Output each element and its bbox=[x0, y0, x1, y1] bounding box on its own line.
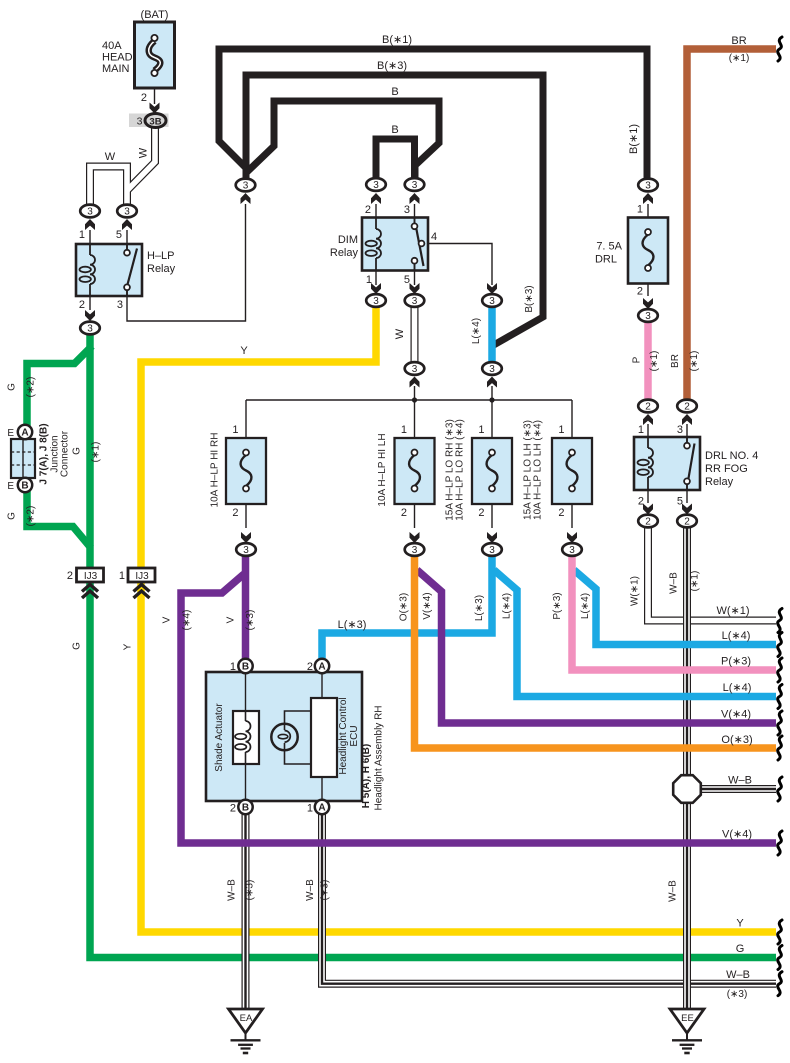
arrow down #7 bbox=[241, 532, 251, 543]
svg-text:W–B: W–B bbox=[227, 879, 238, 901]
svg-text:IJ3: IJ3 bbox=[135, 571, 149, 582]
connector IJ3 right chevrons bbox=[134, 585, 150, 599]
wire B(*3) thick battery feed bbox=[246, 75, 543, 346]
break squiggle #9 bbox=[778, 831, 782, 855]
wire DIM relay pin 1 lead bbox=[375, 271, 377, 285]
wire H-LP relay pin 1 lead bbox=[89, 230, 91, 244]
svg-text:B: B bbox=[391, 124, 398, 136]
fuse H-LP LO RH box bbox=[472, 438, 512, 504]
svg-text:Shade Actuator: Shade Actuator bbox=[214, 703, 225, 772]
svg-text:Relay: Relay bbox=[147, 263, 176, 275]
break squiggle #11 bbox=[778, 946, 782, 970]
relay DIM switch bbox=[414, 218, 416, 224]
svg-text:3: 3 bbox=[412, 364, 418, 375]
svg-text:W(∗1): W(∗1) bbox=[716, 605, 749, 617]
wire L(*4) branch fuse 4 to right edge bbox=[574, 570, 776, 645]
svg-text:2: 2 bbox=[79, 299, 85, 311]
connector oval 3 #7 bbox=[366, 294, 386, 307]
svg-text:L(∗4): L(∗4) bbox=[471, 318, 482, 344]
wire DIM relay pin 3 lead bbox=[414, 204, 416, 218]
connector IJ3 left chevrons bbox=[82, 585, 98, 599]
svg-text:1: 1 bbox=[230, 661, 236, 673]
relay DRL coil bbox=[647, 437, 649, 448]
wire W(*1) from DRL relay pin 2 bbox=[648, 527, 776, 621]
svg-text:(∗1): (∗1) bbox=[689, 351, 700, 372]
svg-text:(∗3): (∗3) bbox=[727, 989, 748, 1000]
node junction dot L column bbox=[489, 397, 494, 402]
octagon junction W-B bbox=[673, 775, 701, 803]
arrow down #11 bbox=[643, 504, 653, 515]
connector oval 3 #12 bbox=[638, 179, 658, 192]
wire DRL fuse pin 1 lead bbox=[647, 204, 649, 232]
svg-text:L(∗4): L(∗4) bbox=[502, 593, 513, 619]
svg-text:W(∗1): W(∗1) bbox=[630, 576, 641, 606]
svg-text:3: 3 bbox=[412, 180, 418, 191]
fuse H-LP LO LH box bbox=[552, 438, 592, 504]
svg-text:2: 2 bbox=[307, 661, 313, 673]
svg-text:4: 4 bbox=[431, 231, 437, 243]
svg-text:2: 2 bbox=[684, 517, 690, 528]
arrow up #1 bbox=[85, 219, 95, 230]
wire fuse 3 pin 2 lead bbox=[491, 489, 493, 528]
svg-text:ECU: ECU bbox=[349, 725, 360, 746]
headlight control ECU box bbox=[311, 698, 337, 777]
svg-text:3: 3 bbox=[645, 311, 651, 322]
headlight assembly RH box bbox=[206, 672, 362, 801]
svg-text:1: 1 bbox=[401, 424, 407, 436]
wire DIM relay pin 2 lead bbox=[375, 204, 377, 218]
svg-text:BR: BR bbox=[731, 35, 746, 47]
svg-text:W–B: W–B bbox=[669, 572, 680, 594]
svg-text:Relay: Relay bbox=[330, 247, 359, 259]
connector oval 3 #1 bbox=[80, 205, 100, 218]
break squiggle #4 bbox=[778, 658, 782, 682]
svg-text:3: 3 bbox=[243, 545, 249, 556]
svg-text:O(∗3): O(∗3) bbox=[721, 734, 752, 746]
svg-text:2: 2 bbox=[645, 402, 651, 413]
wire B thick battery feed bbox=[247, 101, 439, 181]
svg-text:Y: Y bbox=[123, 643, 134, 650]
svg-text:H–LP: H–LP bbox=[147, 250, 175, 262]
svg-text:3: 3 bbox=[489, 364, 495, 375]
svg-text:3: 3 bbox=[243, 181, 249, 192]
arrow up #3 bbox=[241, 193, 251, 204]
wire G(*2) branch from junction connector B bbox=[27, 491, 91, 548]
svg-text:Relay: Relay bbox=[705, 476, 734, 488]
wire BAT fusible link to 3B connector bbox=[154, 76, 156, 104]
svg-text:W: W bbox=[394, 328, 406, 339]
svg-text:W: W bbox=[138, 147, 150, 158]
svg-text:G: G bbox=[736, 943, 745, 955]
arrow down #4 bbox=[410, 283, 420, 294]
svg-text:3: 3 bbox=[124, 207, 130, 218]
svg-text:(∗1): (∗1) bbox=[649, 351, 660, 372]
wire W-B from DRL relay pin 5 to ground EE bbox=[683, 527, 691, 1009]
wire Y yellow bbox=[141, 306, 776, 932]
arrow up #4 bbox=[371, 193, 381, 204]
svg-text:B: B bbox=[242, 662, 249, 673]
svg-text:3: 3 bbox=[373, 180, 379, 191]
svg-text:1: 1 bbox=[307, 803, 313, 815]
connector 3B gray tag bbox=[129, 114, 169, 128]
wire DRL relay pin 2 lead bbox=[647, 490, 649, 503]
svg-text:G: G bbox=[72, 642, 83, 650]
svg-text:Headlight Control: Headlight Control bbox=[338, 697, 349, 774]
connector oval 2 #1 bbox=[638, 400, 658, 413]
fuse 10A H-LP HI RH box bbox=[226, 438, 266, 504]
svg-text:2: 2 bbox=[638, 496, 644, 508]
wire fuse 1 pin 2 lead bbox=[245, 489, 247, 528]
svg-text:P: P bbox=[632, 356, 643, 363]
svg-text:3: 3 bbox=[117, 299, 123, 311]
svg-text:V: V bbox=[226, 616, 237, 623]
arrow down #8 bbox=[410, 532, 420, 543]
wire DRL relay pin 1 lead bbox=[647, 424, 649, 437]
wire W-B octagon to right edge bbox=[700, 785, 776, 793]
svg-text:HEAD: HEAD bbox=[102, 52, 133, 64]
svg-text:W–B: W–B bbox=[728, 775, 752, 787]
svg-text:3: 3 bbox=[412, 545, 418, 556]
arrow up #6 bbox=[410, 377, 420, 388]
svg-text:G: G bbox=[7, 512, 18, 520]
svg-text:A: A bbox=[318, 662, 325, 673]
svg-text:B: B bbox=[242, 803, 249, 814]
connector oval 2 #4 bbox=[677, 515, 697, 528]
break squiggle #12 bbox=[778, 972, 782, 996]
connector oval 3 #10 bbox=[405, 362, 425, 375]
connector oval 3 #13 bbox=[638, 309, 658, 322]
relay DIM coil bbox=[375, 218, 377, 230]
relay DIM box bbox=[362, 218, 428, 271]
wire fuse 2 pin 2 lead bbox=[414, 489, 416, 528]
wire headlight pin B internal bbox=[245, 673, 247, 800]
svg-text:Y: Y bbox=[736, 918, 744, 930]
svg-text:B(∗3): B(∗3) bbox=[377, 60, 407, 72]
svg-text:5: 5 bbox=[116, 229, 122, 241]
connector 3B oval bbox=[145, 114, 166, 128]
svg-text:J 7(A), J 8(B): J 7(A), J 8(B) bbox=[39, 423, 50, 484]
svg-text:10A H–LP LO RH (∗4): 10A H–LP LO RH (∗4) bbox=[455, 419, 466, 521]
svg-text:W–B: W–B bbox=[668, 880, 679, 902]
svg-text:L(∗4): L(∗4) bbox=[722, 630, 751, 642]
svg-text:5: 5 bbox=[677, 496, 683, 508]
wire L column to bus bbox=[491, 386, 493, 400]
connector oval 2 #3 bbox=[638, 515, 658, 528]
wire W column to bus bbox=[414, 386, 416, 400]
wire V(*4) branch fuse 2 to right edge bbox=[417, 570, 776, 723]
headlight pin B bottom bbox=[238, 800, 252, 814]
svg-text:10A H–LP LO LH (∗4): 10A H–LP LO LH (∗4) bbox=[533, 420, 544, 520]
svg-text:B: B bbox=[21, 481, 28, 492]
break squiggle #5 bbox=[778, 685, 782, 709]
svg-text:DIM: DIM bbox=[338, 234, 358, 246]
connector IJ3 left box bbox=[77, 568, 104, 582]
wire fuse 4 pin 2 lead bbox=[571, 489, 573, 528]
wire fuse bus bbox=[246, 399, 572, 401]
wire W DIM relay pin5 to fuse column bbox=[411, 306, 419, 363]
wire H-LP relay pin 2 lead bbox=[89, 296, 91, 310]
wire W-B(*3) from headlight pin B to ground EA bbox=[242, 813, 250, 1009]
svg-text:A: A bbox=[21, 428, 28, 439]
svg-text:B(∗1): B(∗1) bbox=[382, 34, 412, 46]
arrow down #9 bbox=[487, 532, 497, 543]
svg-text:RR FOG: RR FOG bbox=[705, 463, 748, 475]
svg-text:3B: 3B bbox=[149, 116, 161, 127]
break squiggle #10 bbox=[778, 920, 782, 944]
junction connector J7/J8 box bbox=[11, 439, 35, 478]
bulb bbox=[271, 724, 297, 750]
relay H-LP coil bbox=[89, 244, 91, 255]
svg-text:3: 3 bbox=[87, 324, 93, 335]
connector oval 3 #9 bbox=[482, 294, 502, 307]
svg-text:V: V bbox=[162, 616, 173, 623]
svg-text:(∗1): (∗1) bbox=[91, 442, 102, 463]
svg-text:(∗3): (∗3) bbox=[245, 610, 256, 631]
svg-text:Headlight Assembly RH: Headlight Assembly RH bbox=[374, 705, 385, 810]
wire bus to fuse 3 bbox=[491, 400, 493, 452]
svg-text:DRL: DRL bbox=[595, 254, 617, 266]
svg-text:2: 2 bbox=[478, 507, 484, 519]
svg-text:V(∗4): V(∗4) bbox=[721, 709, 751, 721]
svg-text:G: G bbox=[7, 383, 18, 391]
relay DRL NO.4 RR FOG box bbox=[634, 437, 700, 490]
svg-text:B(∗3): B(∗3) bbox=[524, 285, 535, 312]
svg-text:(∗1): (∗1) bbox=[729, 53, 750, 64]
svg-text:3: 3 bbox=[412, 296, 418, 307]
arrow up #2 bbox=[122, 219, 132, 230]
connector oval 3 #15 bbox=[405, 543, 425, 556]
relay H-LP switch bbox=[126, 244, 128, 250]
svg-text:DRL NO. 4: DRL NO. 4 bbox=[705, 450, 758, 462]
bulb leads bbox=[285, 711, 312, 764]
svg-text:E: E bbox=[7, 481, 14, 492]
svg-text:2: 2 bbox=[401, 507, 407, 519]
svg-text:Connector: Connector bbox=[60, 430, 71, 477]
wire H-LP relay pin 3 to splice node bbox=[127, 204, 246, 321]
svg-text:H 5(A), H 6(B): H 5(A), H 6(B) bbox=[361, 744, 372, 808]
svg-text:40A: 40A bbox=[102, 40, 122, 52]
wire B bridge DIM relay pins 2-3 bbox=[376, 139, 415, 181]
arrow down #2 bbox=[85, 310, 95, 321]
break squiggle #1 bbox=[778, 37, 782, 61]
wire V(*3) fuse 1 to headlight pin B bbox=[242, 556, 250, 660]
svg-text:3: 3 bbox=[677, 424, 683, 436]
svg-text:(∗4): (∗4) bbox=[182, 610, 193, 631]
svg-text:A: A bbox=[318, 803, 325, 814]
break squiggle #6 bbox=[778, 711, 782, 735]
svg-text:7. 5A: 7. 5A bbox=[596, 241, 622, 253]
svg-text:3: 3 bbox=[87, 207, 93, 218]
svg-text:L(∗4): L(∗4) bbox=[723, 682, 752, 694]
svg-text:2: 2 bbox=[684, 402, 690, 413]
headlight pin B top bbox=[238, 659, 252, 673]
svg-text:(∗3): (∗3) bbox=[320, 880, 331, 901]
break squiggle #2 bbox=[778, 609, 782, 633]
svg-text:B: B bbox=[391, 86, 398, 98]
wire bus to fuse 2 bbox=[414, 400, 416, 452]
wire DIM relay pin 4 to connector bbox=[425, 244, 493, 286]
svg-text:P(∗3): P(∗3) bbox=[721, 656, 751, 668]
wire L(*4) branch fuse 3 to right edge bbox=[494, 570, 776, 697]
svg-text:O(∗3): O(∗3) bbox=[399, 593, 410, 621]
connector IJ3 right box bbox=[128, 568, 155, 582]
svg-text:5: 5 bbox=[404, 274, 410, 286]
connector oval 3 #6 bbox=[405, 178, 425, 191]
fusible link 40A HEAD MAIN (BAT) box bbox=[135, 22, 175, 88]
break squiggle #8 bbox=[778, 777, 782, 801]
ground EA bbox=[229, 1009, 263, 1033]
junction connector pin A bbox=[18, 425, 32, 439]
svg-text:2: 2 bbox=[67, 570, 73, 582]
node junction dot W column bbox=[412, 397, 417, 402]
relay DRL switch bbox=[686, 437, 688, 443]
wire W from 3B connector bbox=[90, 167, 127, 207]
wire bus to fuse 4 bbox=[571, 400, 573, 452]
wire G green main bbox=[90, 334, 776, 958]
junction connector pin B bbox=[18, 478, 32, 492]
svg-text:W–B: W–B bbox=[305, 879, 316, 901]
connector oval 2 #2 bbox=[677, 400, 697, 413]
wire O(*3) fuse 2 to right edge bbox=[415, 556, 777, 748]
wire H-LP relay pin 5 lead bbox=[126, 230, 128, 244]
arrow down #12 bbox=[682, 504, 692, 515]
wire BR brown feed bbox=[687, 49, 776, 400]
relay H-LP box bbox=[76, 244, 142, 296]
wire W-B(*3) from headlight pin A to right edge bbox=[322, 813, 776, 984]
wire P(*3) fuse 4 to right edge bbox=[572, 556, 776, 670]
svg-text:3: 3 bbox=[489, 296, 495, 307]
connector oval 3 #5 bbox=[366, 178, 386, 191]
svg-text:(BAT): (BAT) bbox=[141, 9, 169, 21]
svg-text:3: 3 bbox=[373, 296, 379, 307]
wire B(*1) thick battery feed bbox=[219, 49, 647, 180]
connector oval 3 #11 bbox=[482, 362, 502, 375]
svg-text:L(∗3): L(∗3) bbox=[338, 619, 367, 631]
arrow down #3 bbox=[371, 283, 381, 294]
arrow up #9 bbox=[643, 414, 653, 425]
svg-text:1: 1 bbox=[637, 204, 643, 216]
wire DRL fuse pin 2 lead bbox=[647, 268, 649, 296]
svg-text:3: 3 bbox=[645, 181, 651, 192]
svg-text:1: 1 bbox=[478, 424, 484, 436]
wire DRL relay pin 3 lead bbox=[686, 424, 688, 437]
svg-text:2: 2 bbox=[558, 507, 564, 519]
svg-text:1: 1 bbox=[119, 570, 125, 582]
wire V(*4) branch fuse 1 to right edge bbox=[181, 574, 776, 843]
svg-text:(∗2): (∗2) bbox=[26, 506, 37, 527]
wire L(*4) DIM relay pin 4 segment bbox=[488, 306, 496, 363]
svg-text:BR: BR bbox=[670, 354, 681, 368]
arrow down #10 bbox=[567, 532, 577, 543]
svg-text:1: 1 bbox=[558, 424, 564, 436]
svg-text:10A H–LP HI LH: 10A H–LP HI LH bbox=[377, 433, 388, 506]
arrow up #5 bbox=[410, 193, 420, 204]
connector oval 3 #17 bbox=[562, 543, 582, 556]
svg-text:(∗2): (∗2) bbox=[26, 377, 37, 398]
arrow down #5 bbox=[487, 283, 497, 294]
svg-text:1: 1 bbox=[366, 274, 372, 286]
svg-text:2: 2 bbox=[232, 507, 238, 519]
svg-text:E: E bbox=[7, 428, 14, 439]
connector oval 3 #2 bbox=[117, 205, 137, 218]
connector oval 3 #3 bbox=[80, 322, 100, 335]
svg-text:3: 3 bbox=[489, 545, 495, 556]
svg-text:W: W bbox=[105, 151, 116, 163]
connector oval 3 #4 bbox=[236, 179, 256, 192]
connector oval 3 #14 bbox=[236, 543, 256, 556]
svg-text:Y: Y bbox=[240, 345, 248, 357]
headlight pin A top bbox=[315, 659, 329, 673]
svg-text:L(∗3): L(∗3) bbox=[474, 595, 485, 621]
arrow up #7 bbox=[487, 377, 497, 388]
svg-text:W–B: W–B bbox=[726, 969, 750, 981]
svg-text:V(∗4): V(∗4) bbox=[722, 829, 752, 841]
ground EE bbox=[670, 1009, 704, 1033]
svg-text:2: 2 bbox=[230, 803, 236, 815]
wire L(*3) fuse 3 to headlight pin A bbox=[322, 556, 492, 660]
fuse 7.5A DRL box bbox=[628, 218, 668, 284]
fuse 10A H-LP HI LH box bbox=[395, 438, 435, 504]
svg-text:EE: EE bbox=[681, 1013, 694, 1024]
shade actuator box bbox=[233, 711, 259, 764]
svg-text:3: 3 bbox=[569, 545, 575, 556]
svg-text:2: 2 bbox=[637, 286, 643, 298]
svg-text:V(∗4): V(∗4) bbox=[422, 592, 433, 619]
svg-text:MAIN: MAIN bbox=[102, 63, 130, 75]
svg-text:2: 2 bbox=[141, 92, 147, 104]
wire G(*2) branch to junction connector A bbox=[27, 346, 92, 426]
wire DRL relay pin 5 lead bbox=[686, 490, 688, 503]
wire DIM relay pin 5 lead bbox=[414, 271, 416, 285]
svg-text:P(∗3): P(∗3) bbox=[552, 592, 563, 619]
wire P(*1) DRL fuse to DRL relay bbox=[644, 322, 652, 400]
svg-text:10A H–LP HI RH: 10A H–LP HI RH bbox=[210, 433, 221, 508]
svg-text:B(∗1): B(∗1) bbox=[628, 124, 640, 154]
svg-text:1: 1 bbox=[638, 424, 644, 436]
svg-text:(∗3): (∗3) bbox=[245, 880, 256, 901]
wire bus to fuse 1 bbox=[245, 400, 247, 452]
arrow up #10 bbox=[682, 414, 692, 425]
svg-text:EA: EA bbox=[240, 1013, 253, 1024]
svg-text:2: 2 bbox=[365, 204, 371, 216]
break squiggle #3 bbox=[778, 633, 782, 657]
svg-text:2: 2 bbox=[645, 517, 651, 528]
svg-text:3: 3 bbox=[137, 116, 143, 128]
connector oval 3 #16 bbox=[482, 543, 502, 556]
headlight pin A bottom bbox=[315, 800, 329, 814]
arrow down #1 bbox=[150, 103, 160, 114]
svg-text:G: G bbox=[72, 447, 83, 455]
svg-text:3: 3 bbox=[404, 204, 410, 216]
svg-text:1: 1 bbox=[232, 424, 238, 436]
svg-text:1: 1 bbox=[79, 229, 85, 241]
arrow down #6 bbox=[643, 298, 653, 309]
svg-text:L(∗4): L(∗4) bbox=[580, 593, 591, 619]
break squiggle #7 bbox=[778, 736, 782, 760]
wire headlight pin A internal bbox=[321, 673, 323, 800]
svg-text:(∗1): (∗1) bbox=[690, 571, 701, 592]
arrow up #8 bbox=[643, 193, 653, 204]
svg-text:IJ3: IJ3 bbox=[84, 571, 98, 582]
connector oval 3 #8 bbox=[405, 294, 425, 307]
